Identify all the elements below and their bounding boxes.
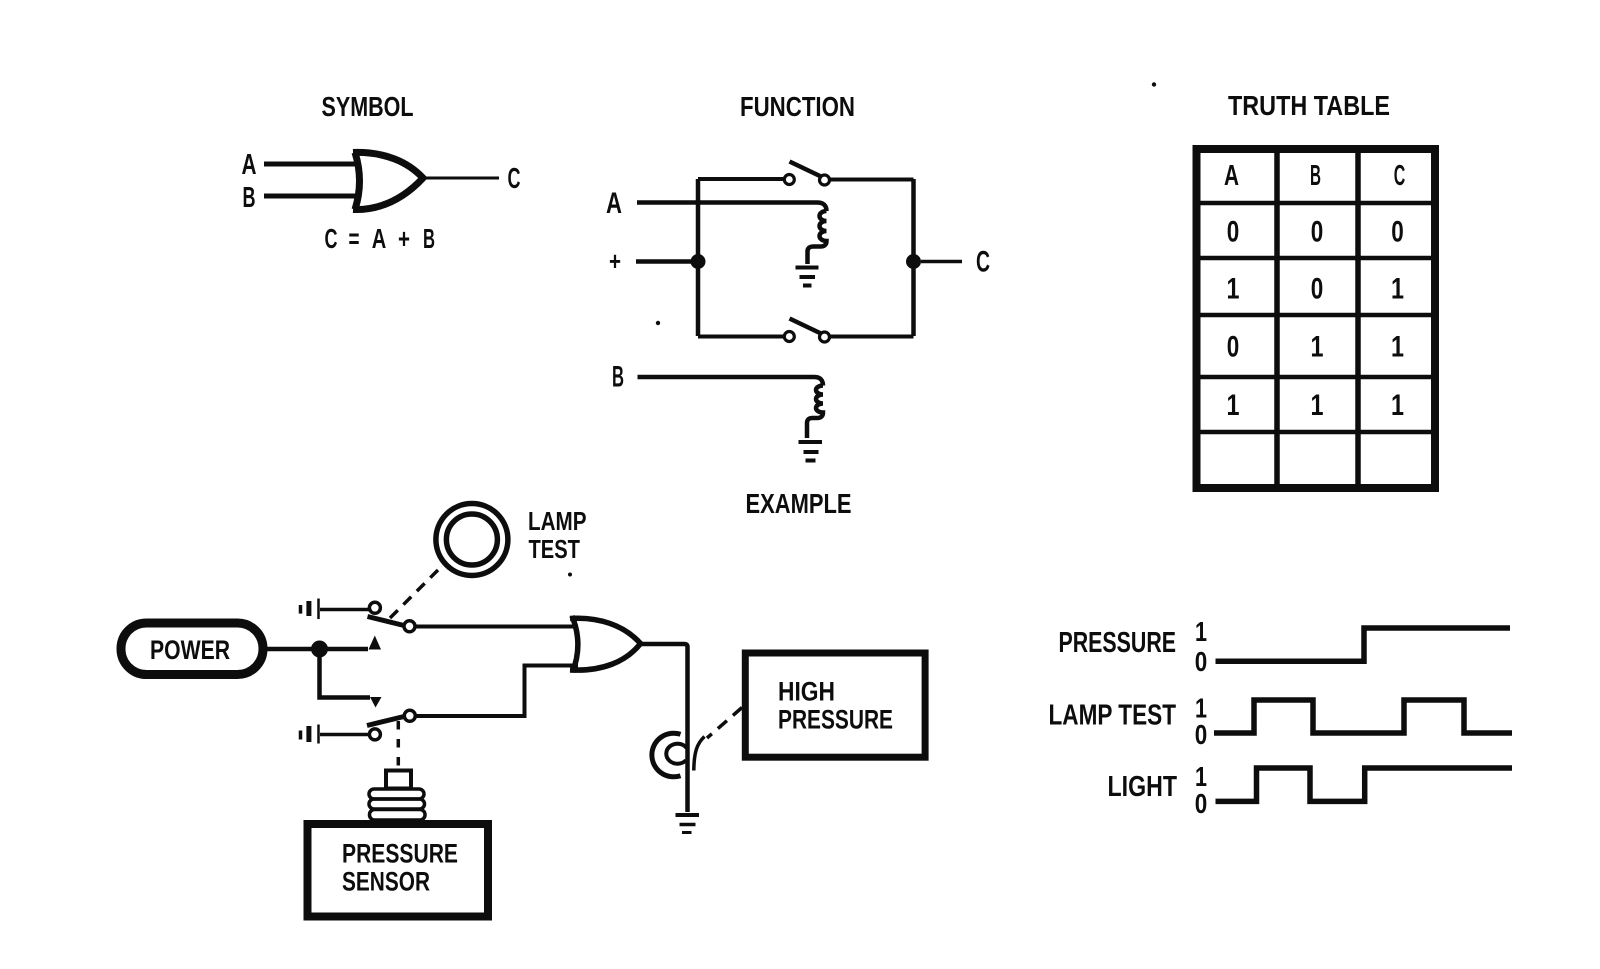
svg-text:1: 1 [1227, 389, 1240, 422]
svg-text:POWER: POWER [150, 635, 230, 665]
dashed link S2 to pressure sensor [397, 721, 401, 767]
svg-text:B: B [1310, 160, 1321, 192]
relay coil K2 [807, 386, 823, 439]
svg-text:LAMP: LAMP [528, 506, 587, 536]
truth table column divider 2 [1355, 149, 1361, 488]
switch contact K1 left (top branch) [784, 175, 794, 185]
switch contact K2 right (bottom branch) [820, 332, 830, 342]
label LAMP TEST [528, 506, 587, 564]
truth table outer frame [1197, 149, 1436, 488]
svg-text:1: 1 [1311, 389, 1324, 422]
truth table row divider 4 [1197, 375, 1436, 380]
ground (light bulb) [676, 815, 700, 833]
svg-text:1: 1 [1311, 331, 1324, 364]
pressure sensor bellows [369, 789, 425, 820]
switch contact K2 left (bottom branch) [784, 332, 794, 342]
svg-text:C: C [1394, 160, 1406, 192]
wire top branch right [831, 178, 914, 182]
wire POWER to junction [267, 647, 319, 652]
truth table row divider 3 [1197, 313, 1436, 318]
svg-text:C: C [976, 246, 990, 279]
svg-text:TRUTH TABLE: TRUTH TABLE [1228, 90, 1390, 121]
battery B1 (lamp test branch) [301, 599, 319, 620]
svg-text:0: 0 [1311, 273, 1324, 306]
svg-text:0: 0 [1227, 331, 1240, 364]
switch contact K1 right (top branch) [820, 175, 830, 185]
svg-text:0: 0 [1195, 788, 1208, 819]
svg-text:PRESSURE: PRESSURE [778, 705, 893, 735]
wire top branch left [698, 177, 784, 181]
wire right bus vertical [911, 179, 916, 336]
svg-text:TEST: TEST [529, 534, 581, 564]
wire input A to OR gate [264, 162, 357, 167]
svg-text:1: 1 [1391, 331, 1404, 364]
switch blade K2 (bottom branch) [790, 319, 823, 335]
truth table row 3 values 0 1 1 [1227, 331, 1404, 364]
wire junction down and to lower switch arm [320, 649, 371, 698]
svg-text:+: + [398, 223, 410, 254]
svg-text:PRESSURE: PRESSURE [342, 839, 458, 869]
svg-text:0: 0 [1391, 216, 1404, 249]
indicator lamp DS1 inner ring [446, 514, 497, 565]
truth table row divider 2 [1197, 256, 1436, 261]
HIGH PRESSURE box [745, 653, 925, 757]
wire OR gate output down to light [641, 644, 688, 812]
arrow to lower switch blade [370, 697, 382, 708]
wire battery B1 to switch S1 [320, 608, 369, 612]
svg-text:PRESSURE: PRESSURE [1059, 627, 1177, 659]
svg-text:0: 0 [1227, 216, 1240, 249]
svg-text:=: = [349, 223, 360, 254]
switch blade K1 (top branch) [790, 162, 823, 178]
svg-text:HIGH: HIGH [778, 677, 835, 707]
svg-text:1: 1 [1195, 616, 1207, 647]
battery B2 (pressure branch) [301, 725, 319, 744]
wire + supply to node [636, 259, 695, 264]
truth table row 2 values 1 0 1 [1227, 273, 1405, 306]
switch S2 blade [367, 717, 404, 726]
waveform LAMP TEST [1214, 700, 1512, 733]
wire OR gate output to C [423, 177, 499, 180]
wire junction to upper switch arm [320, 647, 369, 652]
or-gate U2 (EXAMPLE) [570, 616, 641, 672]
pressure sensor cap [386, 771, 411, 789]
waveform LIGHT [1216, 768, 1513, 801]
svg-text:1: 1 [1227, 273, 1240, 306]
dashed pointer HIGH PRESSURE to light [707, 708, 742, 739]
truth table row divider 1 [1197, 201, 1436, 206]
waveform PRESSURE [1216, 628, 1511, 661]
svg-text:LIGHT: LIGHT [1108, 771, 1178, 803]
svg-text:A: A [606, 187, 622, 220]
svg-text:EXAMPLE: EXAMPLE [746, 488, 852, 519]
label HIGH PRESSURE [778, 677, 893, 735]
svg-text:B: B [423, 223, 435, 254]
arrow to upper switch blade [369, 636, 382, 650]
junction node right [906, 254, 921, 269]
wire S2 to OR gate bottom input [416, 666, 579, 717]
svg-text:B: B [243, 182, 256, 214]
svg-text:LAMP TEST: LAMP TEST [1049, 700, 1177, 732]
svg-text:0: 0 [1195, 646, 1208, 677]
switch S1 contact right [404, 621, 415, 632]
POWER source oval [121, 623, 263, 675]
svg-text:0: 0 [1195, 719, 1208, 750]
light bulb DS2 filament loop [666, 744, 686, 764]
truth table row 1 values 0 0 0 [1227, 216, 1404, 249]
wire bottom branch left [698, 335, 784, 339]
ground (coil K2) [799, 442, 823, 461]
label PRESSURE SENSOR [342, 839, 458, 897]
wire left bus vertical [696, 179, 701, 336]
svg-text:SENSOR: SENSOR [342, 867, 430, 897]
PRESSURE SENSOR box [308, 824, 489, 917]
svg-text:B: B [612, 361, 624, 394]
svg-text:C: C [325, 223, 338, 254]
wire input B to OR gate [264, 194, 357, 199]
switch S1 contact left [369, 602, 380, 613]
junction node left [691, 254, 706, 269]
truth table row 4 values 1 1 1 [1227, 389, 1405, 422]
svg-text:C: C [508, 163, 521, 195]
svg-text:A: A [372, 223, 387, 254]
or-gate U1 (SYMBOL) [353, 152, 423, 209]
relay coil K1 [808, 211, 827, 264]
wire bottom branch right [831, 335, 914, 339]
switch S2 contact right [404, 710, 415, 721]
pointer hook at light bulb [694, 737, 705, 771]
indicator lamp DS1 outer ring [436, 504, 508, 576]
equation C = A + B [325, 223, 436, 254]
switch S2 contact left [369, 729, 380, 740]
svg-text:FUNCTION: FUNCTION [740, 91, 855, 122]
svg-text:1: 1 [1391, 273, 1404, 306]
light bulb DS2 outer arc [652, 733, 681, 777]
truth table row divider 5 [1197, 430, 1436, 435]
svg-text:SYMBOL: SYMBOL [322, 91, 414, 122]
dashed link S1 to lamp DS1 [390, 570, 438, 618]
ground (coil K1) [796, 268, 819, 286]
svg-text:A: A [1224, 160, 1239, 192]
svg-text:0: 0 [1311, 216, 1324, 249]
truth table column divider 1 [1274, 149, 1280, 488]
svg-text:A: A [242, 149, 257, 181]
junction node power [311, 641, 328, 658]
switch S1 blade [368, 617, 405, 626]
svg-text:1: 1 [1391, 389, 1404, 422]
wire A to relay coil K1 [637, 203, 827, 212]
wire output to C [921, 260, 962, 264]
wire B to relay coil K2 [638, 377, 824, 386]
wire battery B2 to switch S2 [320, 733, 369, 737]
wire S1 to OR gate top input [415, 625, 578, 629]
svg-text:+: + [609, 246, 621, 276]
